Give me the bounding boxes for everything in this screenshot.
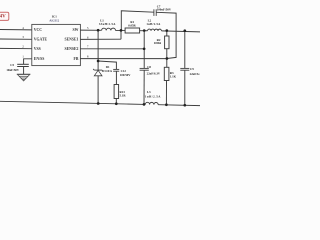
wire R3 to bottom rail	[165, 81, 167, 105]
wire SENSE1	[80, 38, 121, 40]
svg-text:EN/SS: EN/SS	[34, 57, 45, 61]
svg-text:C5: C5	[10, 63, 14, 67]
inductor L3	[145, 102, 158, 104]
svg-text:SENSE1: SENSE1	[64, 38, 78, 42]
wire R13 to rail	[115, 99, 117, 104]
capacitor C8	[140, 68, 149, 70]
wire VGATE input	[0, 38, 32, 40]
wire node L1/R1 up to C7	[121, 11, 154, 31]
svg-text:B340A: B340A	[102, 69, 113, 73]
wire SW node vertical	[97, 30, 99, 70]
svg-text:VGATE: VGATE	[34, 38, 48, 42]
svg-text:SW: SW	[72, 28, 78, 32]
svg-text:AS2112: AS2112	[49, 18, 59, 22]
node C9 bottom	[183, 104, 186, 107]
wire sense node vertical to C8	[143, 31, 145, 69]
svg-text:1.1K: 1.1K	[170, 74, 177, 78]
node D1 bottom	[97, 102, 100, 105]
svg-text:FB: FB	[74, 57, 79, 61]
svg-text:22uF/6.3V: 22uF/6.3V	[147, 72, 161, 76]
node C9 top	[183, 29, 186, 32]
wire bottom rail right	[158, 104, 200, 107]
svg-text:100/50V: 100/50V	[120, 73, 131, 77]
wire VCC input	[0, 29, 32, 31]
wire EN/SS to C5	[24, 59, 32, 64]
wire SW to rail	[80, 29, 101, 31]
wire R2 to FB node	[166, 49, 168, 59]
resistor R13	[114, 85, 119, 99]
capacitor C12	[113, 69, 119, 71]
svg-text:VCC: VCC	[34, 28, 42, 32]
node +24V red label box	[0, 12, 9, 20]
svg-text:33uH/2.5A: 33uH/2.5A	[99, 22, 116, 26]
svg-text:0.05R: 0.05R	[128, 23, 136, 27]
ground symbol	[17, 74, 31, 81]
svg-text:SENSE2: SENSE2	[64, 47, 78, 51]
wire VSS input	[0, 47, 32, 49]
node R1/L2/SENSE2/C8	[143, 29, 146, 32]
wire FB node to R3	[166, 59, 168, 68]
wire SENSE2	[80, 48, 144, 50]
node SW/D1 top	[97, 29, 100, 32]
capacitor C9	[180, 68, 189, 70]
svg-text:C9: C9	[190, 67, 194, 71]
resistor R2	[165, 36, 169, 49]
wire D1 anode down	[97, 76, 99, 104]
wire bottom rail left	[0, 101, 145, 104]
wire rail to R2	[166, 31, 168, 36]
wire C12 to R13	[115, 71, 117, 84]
wire C5 to ground	[23, 67, 25, 75]
node snubber tap	[97, 60, 100, 63]
svg-text:1uH/2.5A: 1uH/2.5A	[146, 22, 161, 26]
svg-text:4V: 4V	[0, 15, 6, 20]
capacitor C7	[154, 9, 156, 16]
wire R1 to L2	[140, 30, 148, 32]
inductor L2	[148, 29, 162, 31]
svg-text:C8: C8	[147, 65, 151, 69]
svg-text:5.1R: 5.1R	[120, 93, 127, 97]
node L1/R1/SENSE1/C7	[120, 29, 123, 32]
wire output rail	[162, 30, 201, 33]
svg-text:22uF/6.3V: 22uF/6.3V	[190, 72, 200, 76]
IC IC1 AS2112 body	[32, 24, 81, 65]
svg-text:1uH/2.5A: 1uH/2.5A	[145, 95, 161, 99]
junction dots	[97, 29, 186, 107]
wire C9 to bottom rail	[184, 70, 186, 105]
node C8 bottom	[143, 103, 146, 106]
svg-text:VSS: VSS	[34, 47, 41, 51]
svg-text:100Ω: 100Ω	[154, 41, 162, 45]
capacitor C5	[17, 64, 29, 66]
node R3 bottom	[165, 103, 168, 106]
svg-text:100nF/50V: 100nF/50V	[157, 7, 172, 11]
node SENSE2/C8	[143, 47, 146, 50]
node R2 top	[165, 29, 168, 32]
wire SENSE1 tap up to L1/R1 node	[120, 30, 122, 39]
diode D1 B340A	[93, 69, 102, 76]
wire L1 to R1	[116, 29, 126, 31]
wire rail to C9	[184, 31, 186, 69]
wire FB	[80, 58, 166, 60]
node FB/R2/R3/C7	[166, 57, 169, 60]
resistor R3	[164, 67, 169, 80]
inductor L1	[102, 28, 116, 30]
wire C7 down to FB node	[156, 12, 176, 58]
wire C8 to bottom rail	[143, 70, 145, 104]
resistor R1	[125, 28, 140, 33]
wire snubber tap	[98, 61, 116, 69]
node R13 bottom	[115, 102, 118, 105]
svg-text:10uF/50V: 10uF/50V	[6, 68, 19, 72]
